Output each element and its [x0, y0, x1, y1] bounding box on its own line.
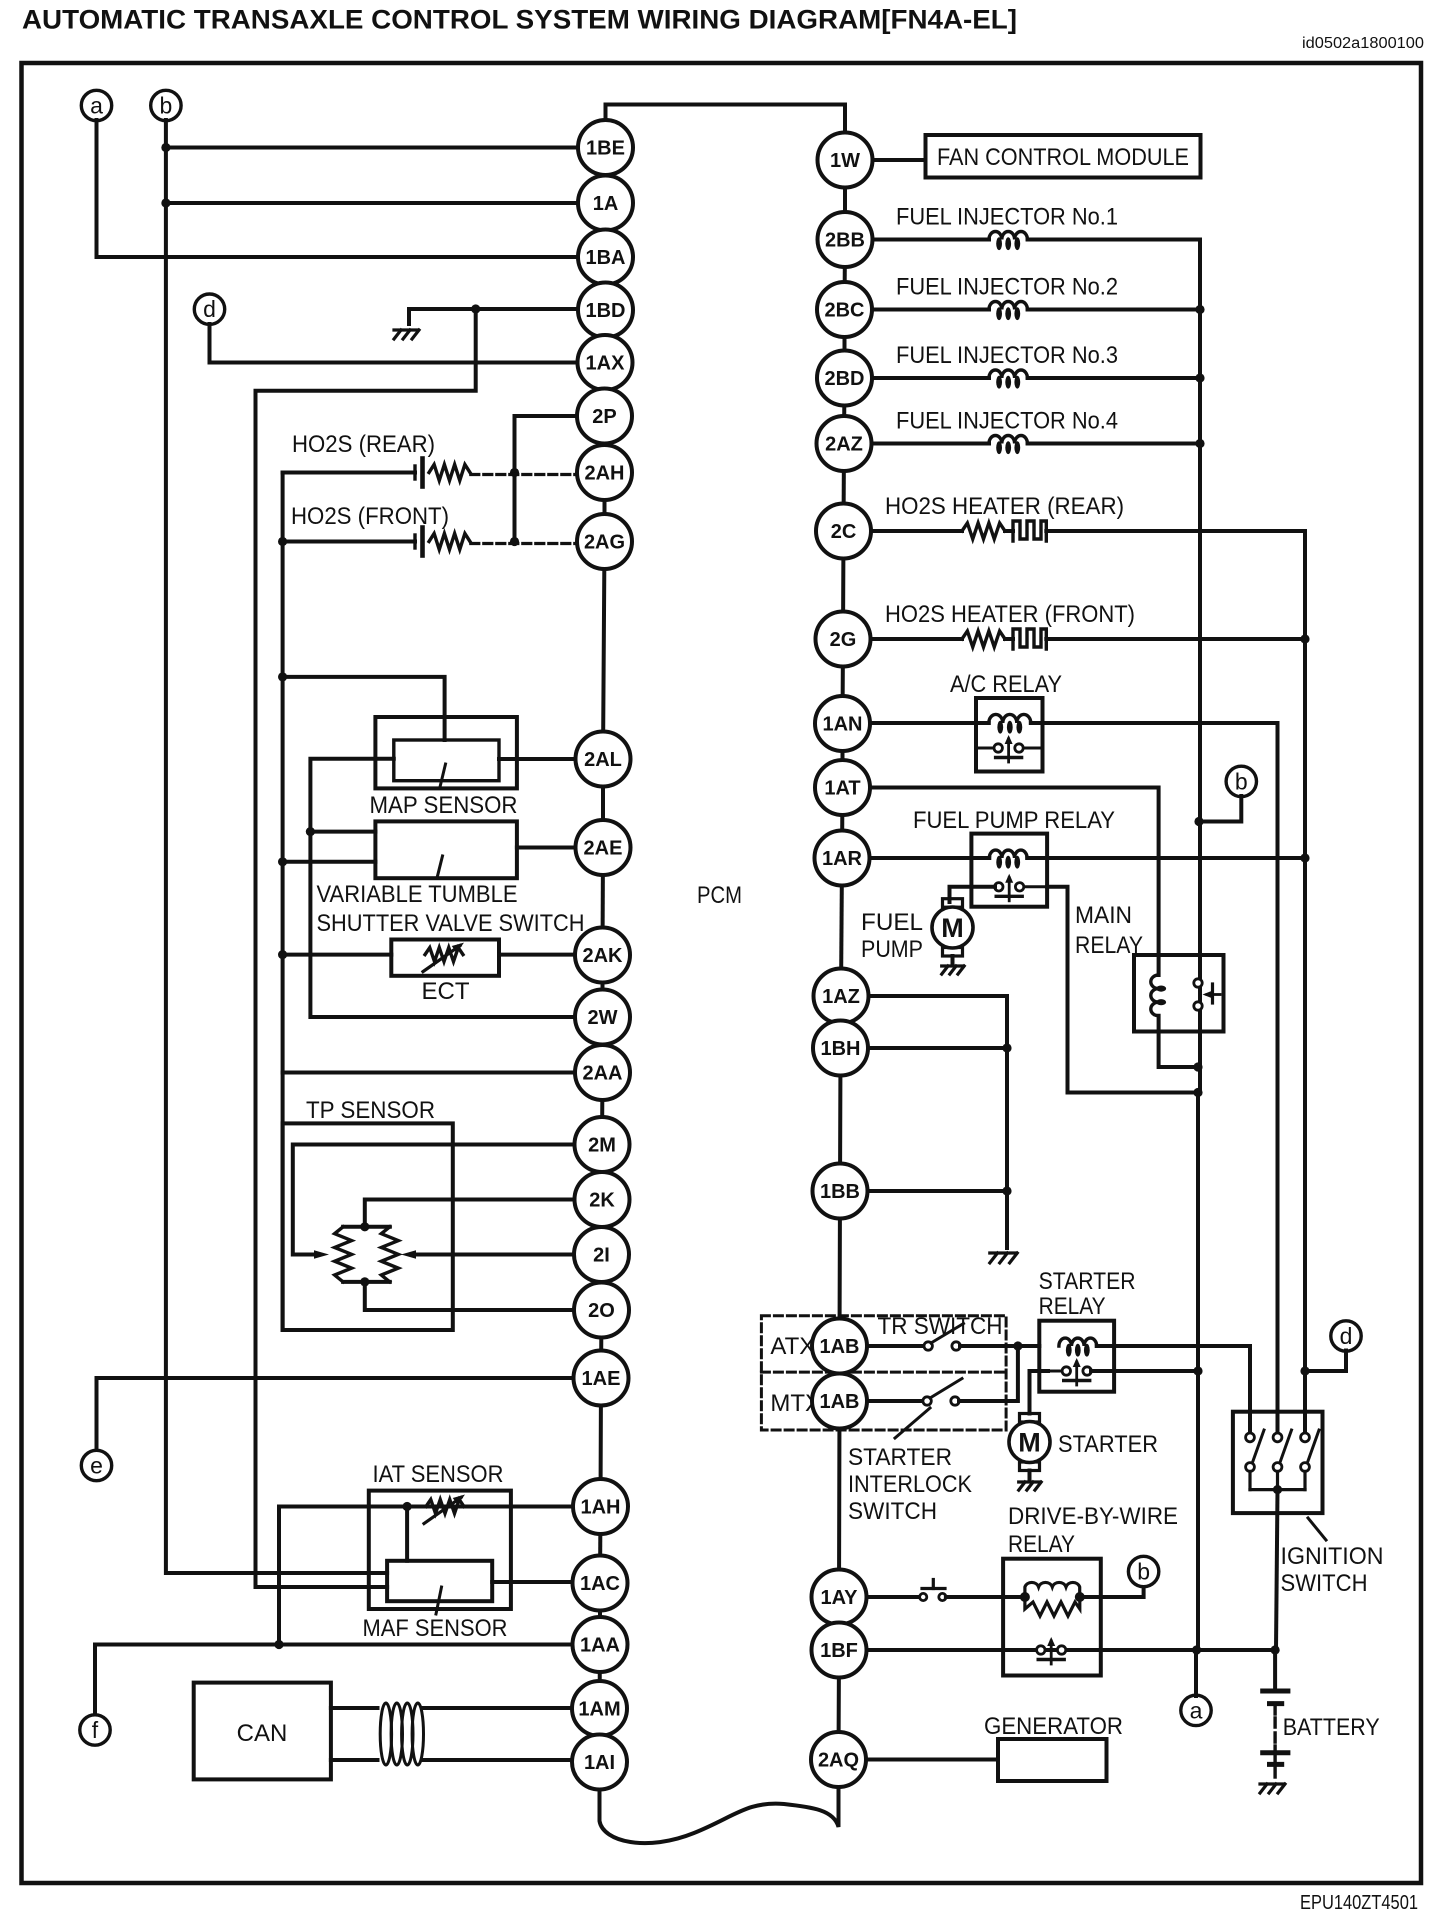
- svg-text:INTERLOCK: INTERLOCK: [848, 1471, 972, 1498]
- wire d2: [1305, 1351, 1346, 1372]
- PCM pin 2BD: [817, 351, 872, 406]
- HO2S front sensor wire: [283, 540, 415, 544]
- ground G3: [990, 1253, 1018, 1263]
- svg-text:1AM: 1AM: [578, 1699, 620, 1721]
- wire MTX switch out: [959, 1346, 1018, 1401]
- DBW relay left node: [1020, 1592, 1030, 1602]
- junction dot ECT: [278, 950, 287, 959]
- HO2S heater front resistor: [962, 631, 1005, 647]
- svg-text:GENERATOR: GENERATOR: [984, 1713, 1123, 1740]
- PCM pin 1AY: [812, 1570, 867, 1625]
- svg-text:STARTER: STARTER: [1039, 1268, 1136, 1295]
- ignition switch box: [1233, 1412, 1323, 1513]
- TR switch dashed divider: [761, 1371, 1006, 1374]
- wire 1AZ: [869, 996, 1008, 1248]
- node a2: [1181, 1695, 1211, 1725]
- svg-text:M: M: [941, 913, 964, 943]
- svg-text:1BH: 1BH: [820, 1038, 860, 1060]
- svg-text:EPU140ZT4501: EPU140ZT4501: [1300, 1892, 1418, 1914]
- PCM pin 2BC: [817, 282, 872, 337]
- svg-text:HO2S HEATER (FRONT): HO2S HEATER (FRONT): [885, 601, 1135, 628]
- generator box: [998, 1739, 1107, 1781]
- svg-text:RELAY: RELAY: [1039, 1293, 1106, 1320]
- wire 2AL: [499, 757, 578, 761]
- junction dot VTSS lower: [278, 857, 287, 866]
- HO2S heater rear resistor: [962, 523, 1005, 539]
- wire main bus lower: [1196, 1093, 1200, 1651]
- PCM pin 1AH: [573, 1479, 628, 1534]
- MAF sensor box: [387, 1561, 492, 1601]
- svg-text:1AR: 1AR: [822, 848, 863, 870]
- wire 1AY: [867, 1595, 921, 1599]
- PCM pin 1AA: [573, 1617, 628, 1672]
- node a: [81, 90, 111, 120]
- svg-text:DRIVE-BY-WIRE: DRIVE-BY-WIRE: [1008, 1503, 1178, 1530]
- TP sensor box: [283, 1123, 453, 1330]
- svg-text:FAN CONTROL MODULE: FAN CONTROL MODULE: [937, 144, 1189, 171]
- svg-text:IAT SENSOR: IAT SENSOR: [373, 1461, 504, 1488]
- wire ECT left: [283, 953, 392, 957]
- fuel pump relay contact: [995, 885, 999, 888]
- PCM pin 2K: [575, 1172, 630, 1227]
- svg-text:b: b: [1235, 768, 1248, 794]
- main relay contact: [1194, 979, 1202, 987]
- wire starter relay to motor: [1030, 1371, 1049, 1414]
- PCM left connector chain stubs: [604, 148, 608, 204]
- svg-text:AUTOMATIC TRANSAXLE CONTROL SY: AUTOMATIC TRANSAXLE CONTROL SYSTEM WIRIN…: [22, 5, 1017, 35]
- HO2S heater front wire: [870, 637, 962, 641]
- svg-text:1AB: 1AB: [819, 1391, 859, 1413]
- svg-text:1BE: 1BE: [586, 138, 625, 160]
- junction dot d2: [1300, 1366, 1309, 1375]
- junction dot 1AR-HO2S bus: [1300, 853, 1309, 862]
- junction dot b-1A: [161, 198, 170, 207]
- HO2S heater front element: [1013, 629, 1046, 649]
- svg-text:MAP SENSOR: MAP SENSOR: [370, 792, 518, 819]
- wire 1AR: [870, 856, 990, 860]
- svg-text:SWITCH: SWITCH: [1281, 1570, 1368, 1597]
- wire a2 stub: [1194, 1650, 1198, 1696]
- junction dot starter relay in: [1013, 1341, 1022, 1350]
- svg-text:a: a: [90, 93, 103, 119]
- PCM pin 1A: [578, 176, 633, 231]
- node b: [151, 90, 181, 120]
- wire 1AX to d: [210, 324, 578, 363]
- CAN twisted pair: [380, 1703, 391, 1765]
- wire MAP supply: [283, 677, 445, 740]
- wire fuel pump relay output bus: [1047, 887, 1198, 1093]
- svg-text:2BB: 2BB: [825, 230, 865, 252]
- node d2: [1331, 1321, 1361, 1351]
- main relay coil: [1151, 975, 1159, 1016]
- svg-text:1AT: 1AT: [824, 778, 860, 800]
- svg-text:1BA: 1BA: [585, 247, 625, 269]
- svg-text:1AH: 1AH: [580, 1497, 620, 1519]
- MAP sensor inner box: [394, 740, 499, 781]
- injector bus wire: [1198, 240, 1202, 1093]
- wire b2: [1199, 796, 1241, 822]
- svg-text:2AG: 2AG: [584, 532, 625, 554]
- wire 2O: [365, 1282, 574, 1310]
- PCM pin 1AN: [815, 696, 870, 751]
- wire 2I: [412, 1253, 575, 1257]
- wire starter relay coil out: [1097, 1346, 1250, 1437]
- PCM bottom connector wire: [600, 1760, 839, 1844]
- svg-text:2AK: 2AK: [582, 945, 623, 967]
- ignition middle pole bus: [1276, 723, 1280, 1437]
- wire main relay coil bottom: [1159, 1016, 1198, 1067]
- fuel injector 1 coil: [989, 231, 1027, 239]
- wire CAN high: [331, 1706, 378, 1710]
- svg-text:FUEL INJECTOR No.1: FUEL INJECTOR No.1: [896, 204, 1118, 231]
- main relay box: [1134, 955, 1224, 1032]
- sensor ground bus: [281, 473, 285, 1331]
- starter motor M2: [1020, 1414, 1040, 1423]
- junction dot injector 4: [1195, 439, 1204, 448]
- svg-text:1A: 1A: [593, 193, 619, 215]
- battery BAT1: [1273, 1650, 1277, 1691]
- wire MTX switch in: [865, 1399, 923, 1403]
- junction dot MAP supply: [278, 672, 287, 681]
- svg-text:1AC: 1AC: [580, 1573, 620, 1595]
- TP pot top bar: [343, 1225, 390, 1229]
- svg-text:1AY: 1AY: [820, 1587, 858, 1609]
- wire 1AA: [95, 1645, 573, 1716]
- PCM pin 2P: [577, 389, 632, 444]
- wire 1BE: [166, 146, 578, 150]
- wire 2AA: [283, 1071, 578, 1075]
- svg-text:2P: 2P: [592, 406, 616, 428]
- svg-text:PUMP: PUMP: [861, 936, 923, 963]
- starter ground stub: [1028, 1471, 1032, 1481]
- wire ignition to battery: [1276, 1490, 1278, 1650]
- svg-text:2AE: 2AE: [584, 838, 623, 860]
- wire 1AT: [870, 788, 1159, 976]
- ground G5: [1260, 1784, 1285, 1793]
- TR switch dashed box: [761, 1316, 1006, 1430]
- PCM pin 2G: [816, 612, 871, 667]
- svg-text:SHUTTER VALVE SWITCH: SHUTTER VALVE SWITCH: [317, 910, 585, 937]
- svg-text:FUEL PUMP RELAY: FUEL PUMP RELAY: [913, 807, 1115, 834]
- svg-text:HO2S (FRONT): HO2S (FRONT): [291, 503, 449, 530]
- wire ATX switch out: [960, 1344, 1039, 1348]
- svg-text:FUEL INJECTOR No.4: FUEL INJECTOR No.4: [896, 408, 1118, 435]
- HO2S front shielded wire: [471, 542, 577, 545]
- svg-text:2AL: 2AL: [584, 749, 622, 771]
- junction dot b2: [1194, 817, 1203, 826]
- PCM pin 1BA: [578, 230, 633, 285]
- HO2S rear cell: [413, 466, 416, 479]
- junction dot b-1BE: [161, 143, 170, 152]
- junction dot 1BB: [1002, 1186, 1011, 1195]
- PCM pin 1BD: [578, 283, 633, 338]
- svg-text:ATX: ATX: [770, 1333, 815, 1360]
- drive-by-wire relay box: [1003, 1559, 1101, 1676]
- wire 2M: [293, 1145, 574, 1255]
- junction dot front sensor: [278, 537, 287, 546]
- wire 1BD: [409, 307, 578, 311]
- svg-text:1BB: 1BB: [820, 1181, 860, 1203]
- IAT thermistor: [426, 1500, 464, 1514]
- HO2S rear shielded wire: [471, 473, 578, 476]
- fuel pump relay coil: [989, 850, 1027, 858]
- VTSS slash: [437, 856, 443, 878]
- wire 1AY to relay: [946, 1595, 1025, 1599]
- svg-text:VARIABLE TUMBLE: VARIABLE TUMBLE: [317, 881, 518, 908]
- FAN CONTROL MODULE box: [926, 135, 1201, 178]
- wire VTSS upper-left: [310, 830, 375, 834]
- svg-text:FUEL INJECTOR No.3: FUEL INJECTOR No.3: [896, 342, 1118, 369]
- IAT sensor box: [369, 1491, 511, 1609]
- svg-text:FUEL: FUEL: [861, 909, 923, 936]
- svg-text:d: d: [203, 296, 216, 322]
- wire ATX switch in: [865, 1344, 924, 1348]
- TP wiper arrow right: [401, 1250, 416, 1258]
- svg-text:b: b: [160, 93, 173, 119]
- junction dot 1BF-bus: [1192, 1645, 1201, 1654]
- starter relay coil: [1059, 1338, 1097, 1346]
- A/C relay box: [976, 698, 1043, 772]
- HO2S front cell: [413, 535, 416, 548]
- svg-text:1AI: 1AI: [584, 1752, 615, 1774]
- svg-text:2AQ: 2AQ: [818, 1750, 859, 1772]
- PCM pin 1BH: [813, 1021, 868, 1076]
- DBW relay resistor: [1025, 1597, 1080, 1616]
- DBW relay coil: [1025, 1582, 1080, 1597]
- svg-text:HO2S HEATER (REAR): HO2S HEATER (REAR): [885, 493, 1124, 520]
- wire 2AQ: [866, 1758, 998, 1762]
- wire 2P: [515, 416, 578, 542]
- svg-text:1AE: 1AE: [582, 1368, 621, 1390]
- fuel pump motor M1: [943, 899, 963, 908]
- wire DBW to b3: [1080, 1586, 1144, 1597]
- junction dot 2P-2AG: [510, 537, 519, 546]
- fuel injector 1 wire: [873, 238, 990, 242]
- PCM pin 1AB-ATX: [812, 1319, 867, 1374]
- TP pot bottom bar: [343, 1280, 390, 1284]
- MAP sensor slash: [440, 764, 446, 787]
- svg-text:SWITCH: SWITCH: [848, 1498, 937, 1525]
- junction dot 1BF-battery: [1271, 1645, 1280, 1654]
- svg-text:2I: 2I: [593, 1245, 610, 1267]
- PCM pin 2I: [574, 1227, 629, 1282]
- node f: [80, 1715, 110, 1745]
- TP pot left resistor: [335, 1227, 352, 1282]
- PCM pin 2AQ: [811, 1732, 866, 1787]
- svg-text:TP SENSOR: TP SENSOR: [306, 1097, 435, 1124]
- PCM pin 1AR: [815, 831, 870, 886]
- TP pot bottom node: [360, 1277, 369, 1286]
- svg-text:1AB: 1AB: [819, 1336, 859, 1358]
- ignition switch common bar: [1250, 1488, 1305, 1491]
- svg-text:f: f: [92, 1717, 99, 1743]
- svg-text:id0502a1800100: id0502a1800100: [1302, 35, 1424, 52]
- svg-text:2C: 2C: [831, 521, 857, 543]
- wire ECT right: [499, 953, 576, 957]
- wire IAT to MAF: [405, 1507, 409, 1561]
- wire 1W: [873, 158, 926, 162]
- svg-text:1W: 1W: [830, 150, 860, 172]
- ignition switch poles: [1248, 1412, 1252, 1433]
- junction dot VTSS top: [306, 827, 315, 836]
- svg-text:1AN: 1AN: [822, 714, 862, 736]
- fuel injector 4 wire: [873, 442, 990, 446]
- HO2S bus wire: [1303, 531, 1307, 1437]
- fuel injector 2 coil: [989, 302, 1027, 310]
- PCM pin 2M: [575, 1117, 630, 1172]
- PCM pin 1AC: [573, 1556, 628, 1611]
- A/C relay contact: [976, 747, 998, 750]
- wire 1BF: [867, 1648, 1276, 1652]
- PCM pin 1W: [818, 133, 873, 188]
- wire starter relay out: [1091, 1369, 1198, 1373]
- svg-text:e: e: [90, 1453, 103, 1479]
- svg-text:IGNITION: IGNITION: [1281, 1543, 1384, 1570]
- pushbutton switch: [920, 1593, 927, 1600]
- PCM right connector chain stubs: [843, 160, 847, 240]
- wire 2W riser: [310, 832, 578, 1017]
- svg-text:PCM: PCM: [697, 882, 742, 909]
- MAF sensor slash: [436, 1587, 442, 1614]
- svg-text:d: d: [1340, 1323, 1353, 1349]
- svg-text:FUEL INJECTOR No.2: FUEL INJECTOR No.2: [896, 274, 1118, 301]
- junction dot 1BH: [1002, 1043, 1011, 1052]
- starter relay box: [1039, 1321, 1114, 1392]
- PCM pin 1AM: [572, 1681, 627, 1736]
- HO2S rear sensor wire: [283, 471, 415, 475]
- node b3: [1128, 1556, 1158, 1586]
- junction dot ignition common: [1273, 1485, 1282, 1494]
- svg-text:2BD: 2BD: [824, 368, 864, 390]
- HO2S heater rear wire: [871, 529, 963, 533]
- wire CAN low: [331, 1758, 378, 1762]
- PCM pin 2O: [574, 1283, 629, 1338]
- PCM pin 1BB: [813, 1164, 868, 1219]
- wire 2AE: [517, 846, 578, 850]
- ECT thermistor: [425, 948, 463, 962]
- ignition switch leader line: [1308, 1518, 1326, 1540]
- TR switch ATX contact: [924, 1342, 932, 1350]
- svg-text:2K: 2K: [589, 1190, 615, 1212]
- starter relay contact: [1039, 1370, 1062, 1373]
- PCM pin 2AA: [575, 1045, 630, 1100]
- svg-text:M: M: [1018, 1428, 1041, 1458]
- DBW relay right node: [1075, 1592, 1085, 1602]
- wire 2K: [365, 1200, 574, 1225]
- wire a to 1BA: [97, 120, 579, 257]
- junction dot injector 3: [1195, 373, 1204, 382]
- svg-text:A/C RELAY: A/C RELAY: [950, 671, 1062, 698]
- wire fuel pump relay to motor: [950, 887, 996, 902]
- svg-text:1AX: 1AX: [586, 353, 626, 375]
- svg-text:MAIN: MAIN: [1075, 902, 1132, 929]
- wire 1BB: [868, 1189, 1008, 1193]
- starter interlock leader line: [895, 1408, 930, 1438]
- TR switch MTX contact: [923, 1397, 931, 1405]
- wire 1AC: [492, 1580, 573, 1584]
- junction dot 1BD: [471, 304, 480, 313]
- wire MAP to VTSS: [310, 759, 393, 832]
- PCM pin 1AT: [815, 760, 870, 815]
- node b2: [1226, 766, 1256, 796]
- fuel injector 4 coil: [989, 435, 1027, 443]
- CAN box: [194, 1683, 331, 1780]
- fuel injector 3 wire: [873, 376, 990, 380]
- HO2S heater rear element: [1013, 521, 1046, 541]
- svg-text:STARTER: STARTER: [1058, 1431, 1158, 1458]
- TP pot top node: [360, 1222, 369, 1231]
- PCM pin 2AG: [577, 514, 632, 569]
- svg-text:2G: 2G: [830, 629, 857, 651]
- ground G1: [394, 330, 419, 339]
- node e: [81, 1450, 111, 1480]
- wire 1AH riser: [277, 1507, 281, 1645]
- PCM pin 1AZ: [814, 969, 869, 1024]
- svg-text:b: b: [1137, 1559, 1150, 1585]
- junction dot fp bus: [1193, 1088, 1202, 1097]
- svg-text:BATTERY: BATTERY: [1283, 1714, 1380, 1741]
- PCM top connector wire: [606, 105, 846, 161]
- wire 1A: [166, 201, 578, 205]
- wire d bus: [256, 309, 476, 1587]
- svg-text:2BC: 2BC: [824, 300, 864, 322]
- A/C relay coil: [989, 714, 1031, 723]
- PCM pin 1AE: [574, 1351, 629, 1406]
- VTSS box: [375, 821, 517, 878]
- node d: [194, 294, 224, 324]
- DBW relay contact: [1037, 1646, 1045, 1654]
- svg-text:1BF: 1BF: [820, 1640, 858, 1662]
- fuel pump ground stub: [951, 956, 955, 965]
- wire 1BD ground stub: [407, 309, 411, 324]
- junction dot starter relay out: [1193, 1366, 1202, 1375]
- wire 1AN: [870, 721, 989, 725]
- svg-text:a: a: [1190, 1697, 1203, 1723]
- wire 1AH: [279, 1505, 573, 1509]
- svg-text:STARTER: STARTER: [848, 1444, 952, 1471]
- svg-text:2AZ: 2AZ: [825, 434, 863, 456]
- svg-text:1BD: 1BD: [585, 300, 625, 322]
- junction dot 1AA: [274, 1640, 283, 1649]
- junction dot HO2S bus: [1300, 634, 1309, 643]
- svg-text:2O: 2O: [588, 1300, 615, 1322]
- svg-text:CAN: CAN: [237, 1720, 288, 1747]
- ECT box: [391, 940, 499, 976]
- junction dot main relay: [1193, 1062, 1202, 1071]
- PCM pin 2C: [816, 504, 871, 559]
- PCM pin 2BB: [818, 212, 873, 267]
- wire 1AE: [97, 1378, 574, 1451]
- svg-text:1AA: 1AA: [580, 1635, 620, 1657]
- ground G2: [942, 966, 965, 974]
- PCM pin 2AE: [576, 820, 631, 875]
- PCM pin 1AB-MTX: [812, 1374, 867, 1429]
- junction dot injector 2: [1195, 305, 1204, 314]
- PCM pin 1BE: [578, 120, 633, 175]
- PCM pin 2AH: [577, 445, 632, 500]
- svg-text:RELAY: RELAY: [1008, 1531, 1075, 1558]
- svg-text:ECT: ECT: [422, 978, 470, 1005]
- PCM pin 2AZ: [817, 416, 872, 471]
- TP pot right resistor: [381, 1227, 398, 1282]
- svg-text:1AZ: 1AZ: [822, 986, 860, 1008]
- wire b bus: [166, 120, 387, 1573]
- junction dot IAT: [403, 1502, 412, 1511]
- ground G4: [1019, 1482, 1041, 1490]
- svg-text:HO2S (REAR): HO2S (REAR): [292, 431, 435, 458]
- svg-text:2AA: 2AA: [582, 1063, 622, 1085]
- svg-text:2W: 2W: [588, 1007, 618, 1029]
